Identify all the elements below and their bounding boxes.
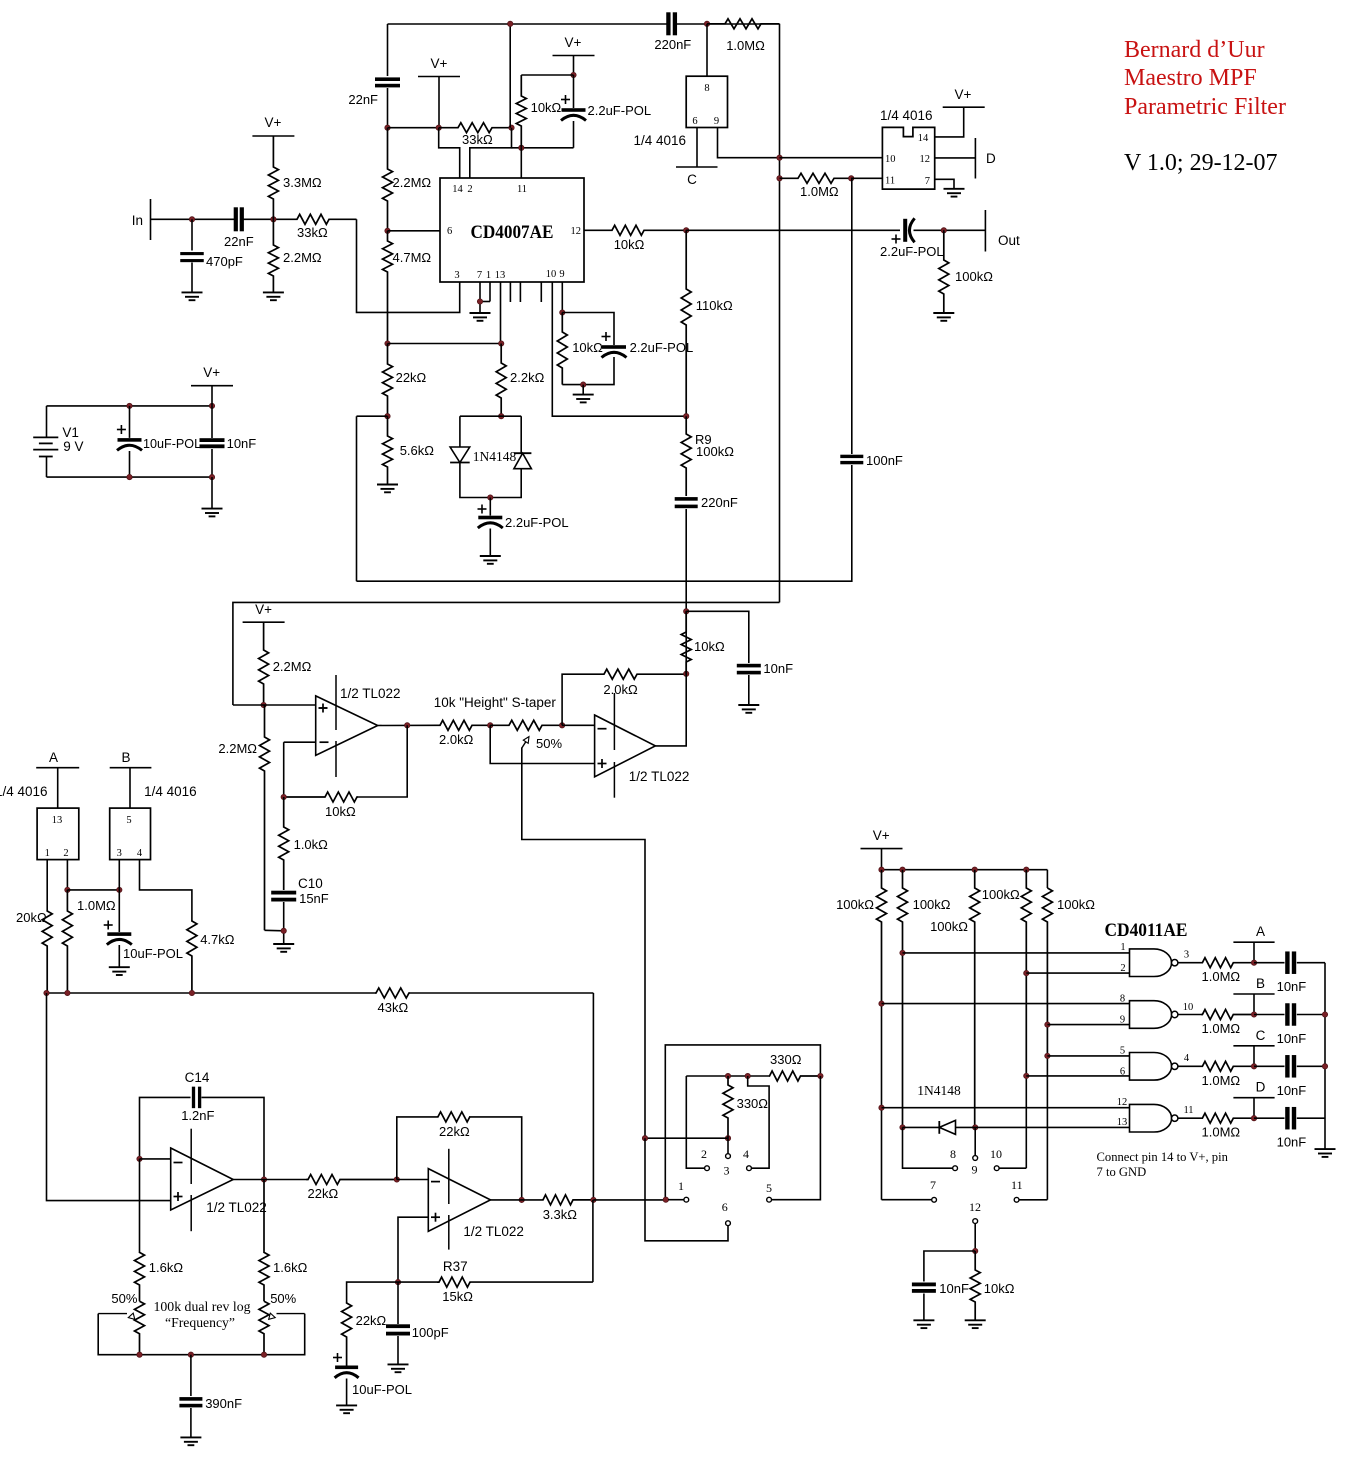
resistor 2.0k fb [602,669,686,697]
resistor 1.0M B [1201,1010,1254,1037]
svg-text:6: 6 [447,226,452,237]
wire A2 input [1026,972,1129,974]
svg-text:12: 12 [571,226,582,237]
svg-text:100kΩ: 100kΩ [1057,897,1095,912]
node contact 3 [724,1138,731,1177]
wire node to left drop [357,415,388,417]
wire contact9 arm [974,1154,976,1156]
power V+ height [243,602,285,622]
svg-text:V+: V+ [265,115,282,130]
resistor 100k Rc [930,870,980,1128]
svg-text:100kΩ: 100kΩ [836,897,874,912]
svg-text:3: 3 [724,1164,730,1178]
wire pin6 [388,230,441,232]
wire pin 8 stub [706,24,708,76]
wire op2 minus [562,724,595,726]
junction Rd-C6 [1024,1073,1029,1078]
junction Ra-B8 [879,1001,884,1006]
wire op1 minus [284,742,316,797]
svg-text:1.0MΩ: 1.0MΩ [1202,1125,1241,1140]
svg-text:V+: V+ [255,602,272,617]
svg-text:10kΩ: 10kΩ [325,804,356,819]
wire pin 9 stub [561,282,563,313]
svg-text:1/4 4016: 1/4 4016 [633,133,686,148]
svg-text:5: 5 [1120,1046,1125,1057]
svg-text:1/2 TL022: 1/2 TL022 [340,686,401,701]
label title red [1124,37,1286,120]
resistor 330 vertical [723,1076,768,1136]
resistor 22k chain [383,344,427,417]
svg-text:100kΩ: 100kΩ [955,269,993,284]
ground 10nF ctrl [913,1320,934,1328]
wire pin 14 to V+ [935,107,964,137]
svg-text:1.2nF: 1.2nF [181,1108,214,1123]
resistor 5.6k [383,416,435,484]
junction 330v top [725,1073,730,1078]
wire loop 602 [233,602,780,705]
ground 2.2uF diode [480,556,501,564]
junction out-43k node [591,1197,596,1202]
junction contact1 node [663,1197,668,1202]
junction 330h left [745,1073,750,1078]
capacitor C10 15nF [271,876,329,944]
resistor 330 horizontal [769,1052,820,1081]
svg-text:13: 13 [52,815,63,826]
junction 22k top [385,341,390,346]
svg-text:3.3MΩ: 3.3MΩ [283,175,322,190]
svg-text:10uF-POL: 10uF-POL [123,946,183,961]
svg-text:13: 13 [1117,1117,1128,1128]
capacitor 100pF [386,1282,449,1364]
junction 22nF bottom [385,125,390,130]
svg-text:220nF: 220nF [654,37,691,52]
node B terminal [110,750,152,808]
wire 330h right drop [772,1076,821,1200]
junction rail-1.0M [65,990,70,995]
wire R37 riser [592,1200,594,1282]
capacitor 2.2uF-POL diode [478,498,569,557]
wire op2 fb up [562,674,602,725]
wire Re tail [1046,1056,1048,1200]
svg-text:1: 1 [45,848,50,859]
node A terminal out [1233,924,1274,963]
junction fb-out node [684,671,689,676]
node contact 4 [743,1147,751,1171]
wire op3 out [233,1179,306,1181]
wire left drop 581 [356,416,358,581]
ground 10nF height [738,705,759,713]
resistor 10k pin9 [557,313,603,385]
wire contact4 arm [748,1076,769,1168]
svg-text:50%: 50% [111,1291,137,1306]
svg-text:13: 13 [495,270,506,281]
wire plus drop op3 [47,993,171,1201]
svg-text:10nF: 10nF [1277,1031,1307,1046]
glyph op3 plus [174,1192,183,1201]
op IC 4016 switch C box [686,76,727,127]
wire top right drop [779,24,781,603]
resistor 2.2M input [268,219,322,292]
svg-text:V+: V+ [565,35,582,50]
svg-text:50%: 50% [270,1291,296,1306]
wire C14 loop [140,1097,265,1179]
wire gate A output [1178,962,1201,964]
wire pin 7 gnd [935,179,954,189]
op IC 4016 switch D box [880,108,935,189]
ground pins 7-1 [470,313,491,321]
junction 1n4148 top [499,414,504,419]
ground 390nF [180,1437,201,1445]
wire pot bottom rail [98,1314,305,1355]
junction op3 out [261,1177,266,1182]
capacitor 10nF B [1254,1003,1325,1046]
junction 2.2uF gnd [581,382,586,387]
svg-text:Out: Out [998,233,1020,248]
node Out terminal [985,210,1020,252]
resistor 2.2k [496,344,544,417]
gate NAND D [1117,1097,1194,1132]
label CD4011AE [1105,920,1188,941]
svg-text:2: 2 [701,1147,707,1161]
svg-text:D: D [986,151,996,166]
junction 330v bottom [725,1136,730,1141]
svg-text:1/4 4016: 1/4 4016 [144,784,197,799]
resistor 100k Rb [898,870,951,1128]
ground 10uF osc [336,1405,357,1413]
resistor 10k out [610,225,686,252]
junction Re-B9 [1045,1022,1050,1027]
wire gate C output [1178,1065,1201,1067]
junction op1 plus node [261,702,266,707]
svg-text:10nF: 10nF [763,661,793,676]
wire pot wiper run [522,748,645,1139]
wire op1 fb drop [358,725,407,797]
capacitor 220nF top [654,12,691,52]
svg-text:C: C [687,172,697,187]
wire op4 fb loop [397,1117,522,1200]
resistor 100k Ra [836,870,886,1004]
svg-text:2.2kΩ: 2.2kΩ [510,370,545,385]
svg-text:22nF: 22nF [348,92,378,107]
power V+ battery [191,365,233,406]
svg-text:4.7MΩ: 4.7MΩ [393,250,432,265]
junction pin6 node [385,228,390,233]
junction pin7-1 [477,299,482,304]
node contact 12 [969,1200,981,1224]
svg-text:2.2uF-POL: 2.2uF-POL [880,244,944,259]
junction V+ 10k node [571,72,576,77]
wire pin 6 to C [696,128,698,168]
junction rail Rc [972,867,977,872]
wire pin11 bus [512,147,574,149]
junction rail Rb [900,867,905,872]
svg-text:14: 14 [918,133,929,144]
svg-text:2.2MΩ: 2.2MΩ [218,741,257,756]
capacitor 22nF top [348,24,400,128]
wire cap to out [914,229,986,231]
wire gate D output [1178,1117,1201,1119]
svg-text:7: 7 [930,1178,936,1192]
wire 330 net top [686,1075,769,1077]
label version [1124,150,1278,176]
gate NAND A [1120,942,1189,977]
svg-text:10kΩ: 10kΩ [614,237,645,252]
svg-text:22kΩ: 22kΩ [396,370,427,385]
resistor 33k gate [439,123,512,147]
resistor 2.2M chain [383,128,432,231]
wire 2.2M low to C10 gnd [265,929,284,932]
op-amp U2A TL022 (height in) [316,675,401,777]
resistor 1.0M A [1201,958,1254,985]
wire pin 13 stub [500,282,502,344]
glyph op2 plus [598,759,607,768]
junction op4 minus node [394,1177,399,1182]
junction pin10-node [684,414,689,419]
wire out riser [851,178,853,454]
svg-text:11: 11 [1183,1105,1193,1116]
svg-text:10nF: 10nF [1277,1083,1307,1098]
wire 100nF to left line [357,465,852,581]
svg-text:Parametric Filter: Parametric Filter [1124,94,1286,120]
svg-text:V+: V+ [203,365,220,380]
svg-text:CD4011AE: CD4011AE [1105,920,1188,941]
junction rail C [1322,1064,1327,1069]
wire op4 out [491,1199,543,1201]
junction node R top [508,21,513,26]
diode 1N4148 right [514,453,532,469]
svg-text:10: 10 [1183,1002,1194,1013]
wire op1 out [378,724,438,726]
svg-text:43kΩ: 43kΩ [378,1000,409,1015]
wire pin3 drop [118,860,120,890]
junction op1 minus node [281,794,286,799]
capacitor 220nF R9 [675,495,738,611]
junction 1.0M C [1251,1064,1256,1069]
junction out-100k [941,228,946,233]
ground battery [202,509,223,517]
wire op4 minus [397,1179,429,1181]
svg-text:22kΩ: 22kΩ [356,1313,387,1328]
svg-text:9: 9 [714,116,719,127]
glyph op4 plus [431,1213,440,1222]
junction 22nF-bias [271,217,276,222]
power V+ input bias [252,115,294,136]
wire 100k top rail [882,869,1048,871]
resistor 22k lowpass [342,1302,387,1366]
wire 33k to pin3 [357,219,460,312]
junction Ra-D12 [879,1105,884,1110]
resistor 1.0M D [1201,1113,1254,1140]
svg-text:C10: C10 [298,876,323,891]
svg-text:“Frequency”: “Frequency” [165,1316,235,1331]
junction input-470pF [189,217,194,222]
wire contact12 drop [974,1224,976,1252]
svg-text:14: 14 [452,184,463,195]
svg-text:C14: C14 [185,1070,210,1085]
wire plus wire op1 [233,704,316,706]
wire 10nF branch bottom [924,1251,975,1282]
junction Rc-diode [973,1125,978,1130]
junction 10uF bottom [127,474,132,479]
svg-text:10: 10 [885,154,896,165]
wire D13 input [975,1126,1129,1128]
wire contact11 arm [1019,1199,1047,1201]
op-amp U3A TL022 (osc) [171,1129,267,1232]
wire pin 7-1 join [480,282,490,313]
wire 10nF branch [686,611,749,663]
svg-text:3: 3 [454,270,459,281]
junction height node [684,609,689,614]
svg-text:4: 4 [1184,1053,1190,1064]
svg-text:22kΩ: 22kΩ [439,1124,470,1139]
junction diode cathode [900,1125,905,1130]
svg-text:Maestro MPF: Maestro MPF [1124,65,1257,91]
ground 5.6k [377,485,398,493]
svg-text:R37: R37 [443,1259,468,1274]
wire wiper to 330v [645,1136,728,1139]
svg-text:10kΩ: 10kΩ [531,100,562,115]
svg-text:V+: V+ [431,56,448,71]
svg-text:1.0MΩ: 1.0MΩ [726,38,765,53]
svg-text:6: 6 [722,1200,728,1214]
svg-text:33kΩ: 33kΩ [297,225,328,240]
node B terminal out [1233,976,1274,1015]
node A terminal [36,750,79,808]
wire op2 out [655,611,686,746]
junction pin9 node [560,310,565,315]
svg-text:1.6kΩ: 1.6kΩ [273,1260,308,1275]
junction op1 out [405,723,410,728]
svg-text:10nF: 10nF [1277,979,1307,994]
wire pin4 jog [140,860,192,920]
wire Rc tail [974,1127,976,1155]
junction pin9-bus [777,155,782,160]
svg-text:4: 4 [743,1147,749,1161]
wire input line [151,218,296,220]
svg-text:390nF: 390nF [205,1396,242,1411]
svg-text:5.6kΩ: 5.6kΩ [400,443,435,458]
wire 4011 gnd rail [1324,963,1326,1149]
wire out line [686,229,900,231]
node C terminal [676,167,718,187]
junction gnd batt [209,474,214,479]
glyph op1 plus [319,704,328,713]
wire op3 minus [140,1158,171,1160]
junction pin13 node [499,341,504,346]
resistor 10k vplus [516,75,561,148]
wire battery top rail [47,405,213,407]
svg-text:2.0kΩ: 2.0kΩ [603,682,638,697]
wire pin 9 to node [718,128,780,158]
wire Rb tail [902,1126,904,1128]
junction 10n-10k node [973,1248,978,1253]
svg-text:100pF: 100pF [412,1325,449,1340]
svg-text:CD4007AE: CD4007AE [471,222,554,243]
resistor 2.0k height1 [438,720,490,747]
junction op2 minus node [559,723,564,728]
capacitor 10nF C [1254,1055,1325,1098]
svg-text:A: A [1256,924,1265,939]
svg-text:1/4 4016: 1/4 4016 [0,784,48,799]
resistor 2.2M bias-low [218,705,269,930]
capacitor 10nF D [1254,1107,1325,1150]
node contact 7 [930,1178,936,1202]
resistor 10k op1 fb [284,792,358,819]
svg-text:1/2 TL022: 1/2 TL022 [206,1200,267,1215]
svg-text:100kΩ: 100kΩ [930,919,968,934]
capacitor 10uF-POL battery [117,406,201,477]
svg-text:2: 2 [63,848,68,859]
svg-text:11: 11 [885,176,895,187]
capacitor C14 1.2nF [181,1070,214,1123]
svg-text:D: D [1256,1080,1266,1095]
svg-text:100k dual rev log: 100k dual rev log [154,1300,251,1315]
capacitor 22nF input [224,207,254,249]
label 1/4 4016 B [144,784,197,799]
svg-text:Connect pin 14 to V+, pin: Connect pin 14 to V+, pin [1097,1150,1229,1164]
svg-text:1.0MΩ: 1.0MΩ [800,184,839,199]
capacitor 100nF [840,453,903,468]
wire battery bottom rail [47,476,213,478]
svg-text:2.2uF-POL: 2.2uF-POL [588,103,652,118]
svg-text:10kΩ: 10kΩ [984,1281,1015,1296]
node D terminal [935,138,996,179]
svg-text:12: 12 [1117,1097,1128,1108]
resistor 10k height-node [681,611,725,674]
power V+ node-L [418,56,460,128]
wire contact8 arm [903,1127,953,1168]
svg-text:V+: V+ [955,87,972,102]
svg-text:In: In [132,213,143,228]
junction C10 bottom [281,928,286,933]
junction out-110k [684,228,689,233]
junction 1.0M B [1251,1012,1256,1017]
wire pin2 drop [66,860,68,890]
op IC 4016 switch A box [37,808,79,860]
junction 1.0M D [1251,1116,1256,1121]
svg-text:22kΩ: 22kΩ [308,1186,339,1201]
capacitor 10nF battery [200,406,257,477]
svg-text:3: 3 [1184,950,1189,961]
resistor 110k [681,230,733,416]
svg-text:15nF: 15nF [299,891,329,906]
potentiometer 10k height [490,720,562,751]
svg-text:5: 5 [766,1181,772,1195]
wire B8 input [882,1003,1130,1005]
junction V+ batt top [209,403,214,408]
resistor 1.0M mid [780,173,852,199]
ground 4016D pin7 [944,189,965,197]
wire 2.2uF branch [562,313,614,385]
svg-text:2.2uF-POL: 2.2uF-POL [505,515,569,530]
svg-text:2: 2 [467,184,472,195]
svg-text:1.6kΩ: 1.6kΩ [149,1260,184,1275]
resistor 1.6k right [259,1180,308,1302]
svg-text:15kΩ: 15kΩ [442,1289,473,1304]
capacitor 2.2uF-POL out [880,218,944,259]
svg-text:2.2uF-POL: 2.2uF-POL [630,340,694,355]
svg-text:3.3kΩ: 3.3kΩ [543,1207,578,1222]
capacitor 2.2uF-POL pin9 [602,332,694,358]
svg-text:220nF: 220nF [701,495,738,510]
wire 1.0M to pin11 [851,177,882,179]
resistor 4.7k [187,920,235,993]
svg-text:9: 9 [559,269,564,280]
wire 10k top link [521,74,573,76]
junction 220nF-pin8 [704,21,709,26]
resistor 22k op4 fb [437,1112,470,1139]
ground 10k ctrl [965,1320,986,1328]
